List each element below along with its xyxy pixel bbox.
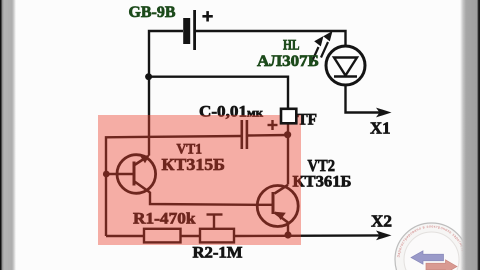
wire inner top (cap line) — [106, 136, 242, 236]
LED HL triangle — [334, 58, 357, 76]
terminal X2 arrowhead — [376, 231, 392, 241]
node junction TF/cap — [284, 131, 291, 138]
wire top rail right of battery — [196, 31, 346, 45]
transistor VT1 collector diagonal — [135, 182, 151, 193]
transformer TF box — [281, 109, 296, 124]
resistor R1 body — [144, 229, 181, 243]
transistor VT2 emitter diagonal with inward arrow — [275, 213, 289, 223]
transistor VT1 base bar — [133, 162, 136, 186]
left video edge band — [0, 0, 17, 270]
wire R2 to X2 arrow — [234, 234, 386, 237]
LED emission arrow 1 — [312, 36, 324, 63]
terminal X1 arrowhead — [376, 108, 392, 118]
LED HL cathode bar — [334, 75, 357, 78]
wire VT1 collector to VT2 base — [150, 192, 272, 205]
node junction VT1 base — [103, 171, 110, 178]
watermark logo circle — [395, 223, 468, 270]
transistor VT1 emitter diagonal with arrow — [135, 158, 147, 166]
LED HL circle — [326, 46, 365, 85]
wire cap right to junction — [247, 134, 288, 137]
node junction battery rail — [145, 73, 152, 80]
watermark red arrow — [426, 260, 457, 270]
capacitor plus sign — [268, 120, 278, 130]
capacitor C plate right — [246, 120, 249, 149]
wire LED to X1 arrow — [346, 86, 387, 113]
capacitor C plate left — [241, 120, 244, 149]
pink highlight overlay — [98, 115, 301, 245]
battery plus sign — [202, 11, 212, 21]
LED emission arrow 2 — [321, 31, 333, 58]
wire between R1 and R2 — [181, 235, 201, 237]
transistor VT1 circle — [117, 155, 156, 194]
transistor VT2 base bar — [272, 192, 275, 214]
wire VT1 base lead — [106, 173, 133, 175]
battery GB positive plate — [193, 10, 196, 50]
wire VT2 emitter to bottom — [287, 223, 289, 235]
node junction VT2 emitter — [284, 231, 291, 238]
wire top rail left of battery — [149, 31, 183, 156]
wire rail to TF — [149, 77, 288, 109]
battery GB negative plate — [183, 18, 190, 44]
resistor R2 trimmer tap — [207, 215, 223, 229]
transistor VT2 circle — [257, 186, 298, 227]
right video edge band — [460, 0, 480, 270]
wire TF bottom to junction — [287, 124, 289, 185]
transistor VT2 collector diagonal — [275, 185, 289, 194]
watermark blue arrow — [411, 251, 444, 264]
wire bottom rail — [106, 235, 144, 237]
resistor R2 body — [200, 229, 234, 243]
